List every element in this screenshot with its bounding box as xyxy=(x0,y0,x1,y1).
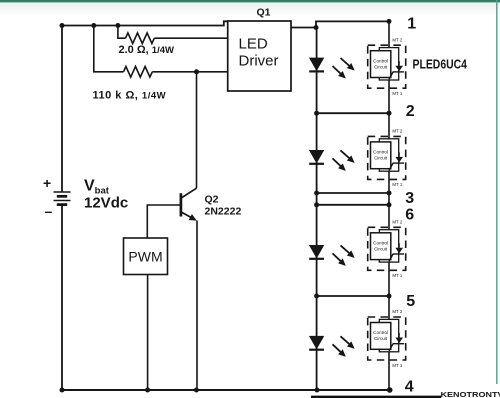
svg-text:2N2222: 2N2222 xyxy=(205,206,242,218)
wire PWM to base xyxy=(147,205,180,238)
svg-text:2: 2 xyxy=(406,103,415,120)
resistor R2 110k xyxy=(124,67,153,78)
junction dots bottom rail node 4 xyxy=(60,388,65,393)
transistor Q2 emitter diagonal xyxy=(182,212,196,219)
bottom partial frame line xyxy=(311,396,441,398)
svg-text:1: 1 xyxy=(407,16,416,33)
right teal border line xyxy=(496,0,498,384)
module PLED6UC4 unit 1 xyxy=(368,37,406,96)
svg-text:KENOTRONTV: KENOTRONTV xyxy=(441,390,500,398)
junction dots node 3 xyxy=(314,191,319,196)
svg-text:Q1: Q1 xyxy=(257,6,271,18)
svg-text:Q2: Q2 xyxy=(205,193,219,205)
wire rail node 1 xyxy=(316,21,389,27)
wire rail node 2 xyxy=(317,112,389,114)
module PLED6UC4 unit 3 xyxy=(368,220,406,279)
svg-text:2.0 Ω, 1/4W: 2.0 Ω, 1/4W xyxy=(119,44,174,56)
battery V_bat plates xyxy=(54,192,71,205)
junction dots node 6 xyxy=(314,202,319,207)
transistor Q2 collector diagonal xyxy=(182,188,197,197)
wire PWM bottom xyxy=(147,275,149,391)
svg-text:–: – xyxy=(45,203,53,219)
wire R1 branch entry xyxy=(118,26,126,39)
resistor R1 2.0 ohm xyxy=(126,33,155,44)
svg-text:PWM: PWM xyxy=(128,249,162,265)
wire driver output xyxy=(291,27,316,29)
transistor Q2 base bar xyxy=(180,193,183,216)
wire R2 to driver xyxy=(152,71,227,73)
svg-text:Driver: Driver xyxy=(239,52,279,69)
svg-text:4: 4 xyxy=(405,378,414,395)
wire emitter down xyxy=(196,221,198,391)
wire top rail xyxy=(62,21,228,25)
wire module string vertical xyxy=(388,21,390,390)
wire left rail battery positive xyxy=(61,26,63,192)
wire battery negative down xyxy=(61,205,63,390)
module PLED6UC4 unit 2 xyxy=(368,129,406,188)
wire bottom rail node 4 xyxy=(62,389,390,391)
LED D2 xyxy=(309,150,353,169)
wire LED string vertical xyxy=(316,28,318,391)
wire rail node 6 xyxy=(317,204,389,206)
svg-text:PLED6UC4: PLED6UC4 xyxy=(413,57,468,72)
wire collector drop xyxy=(196,72,198,188)
svg-text:5: 5 xyxy=(406,293,415,310)
svg-text:110 k Ω, 1/4W: 110 k Ω, 1/4W xyxy=(93,89,167,101)
LED D3 xyxy=(309,245,353,264)
junction dots node 5 xyxy=(314,294,319,299)
wire rail node 3 xyxy=(317,192,389,194)
PWM box xyxy=(124,238,168,275)
svg-text:+: + xyxy=(43,175,51,191)
svg-text:LED: LED xyxy=(239,35,268,52)
junction dots top rail xyxy=(60,23,65,28)
wire R2 branch entry xyxy=(94,26,124,72)
junction dot node 1 left xyxy=(314,25,319,30)
LED driver box U1 xyxy=(228,21,291,91)
module PLED6UC4 unit 4 xyxy=(368,309,406,368)
svg-text:6: 6 xyxy=(405,207,414,224)
junction dot node 1 right xyxy=(387,19,392,24)
LED D4 xyxy=(309,336,353,355)
top green border line xyxy=(0,0,500,2)
svg-text:3: 3 xyxy=(405,190,414,207)
LED D1 xyxy=(309,58,353,77)
wire rail node 5 xyxy=(317,295,389,297)
wire R1 to driver xyxy=(154,37,227,39)
junction dots node 2 xyxy=(314,111,319,116)
svg-text:12Vdc: 12Vdc xyxy=(84,195,128,212)
junction dot collector tap xyxy=(194,69,199,74)
